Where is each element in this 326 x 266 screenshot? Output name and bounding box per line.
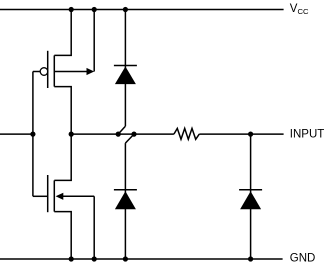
svg-text:VCC: VCC [290,3,309,16]
svg-text:INPUT: INPUT [290,128,325,140]
svg-text:GND: GND [290,252,316,264]
